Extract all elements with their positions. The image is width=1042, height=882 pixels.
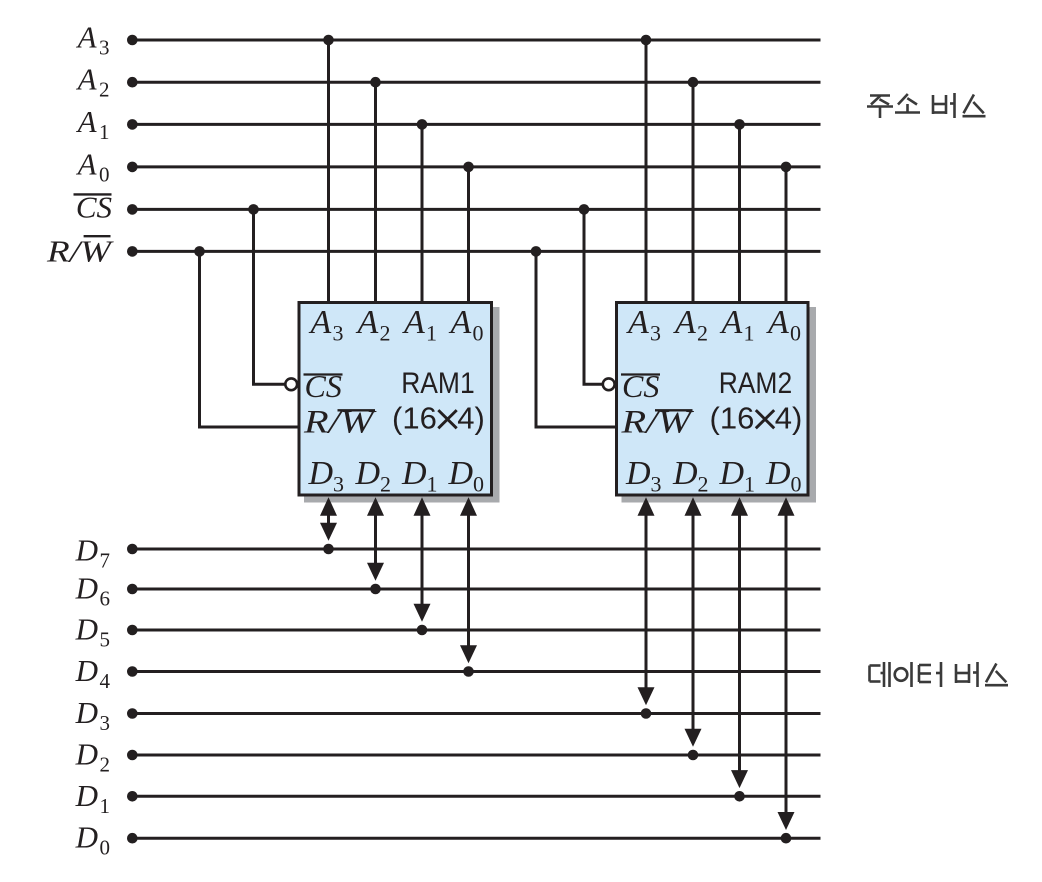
arrowhead up RAM2 D1 to D1 bus [731, 497, 748, 516]
svg-text:A: A [76, 146, 98, 181]
bus line D3 (data bus) [132, 712, 820, 715]
wire A0 bus to RAM1 pin A0 [467, 167, 470, 304]
node D4 bus left terminal [127, 666, 138, 677]
wire RAM2 D0 to D0 bus (bidirectional data line) [785, 505, 788, 826]
node D5 bus left terminal [127, 625, 138, 636]
svg-text:D: D [75, 571, 98, 606]
svg-text:R/W: R/W [46, 234, 115, 269]
arrowhead up RAM1 D1 to D5 bus [414, 497, 431, 516]
svg-text:1: 1 [426, 321, 437, 346]
wire A1 bus to RAM2 pin A1 [738, 124, 741, 304]
bus line D4 (data bus) [132, 670, 820, 673]
svg-text:A: A [449, 304, 472, 341]
svg-text:RAM1: RAM1 [401, 367, 475, 400]
svg-text:A: A [626, 304, 649, 341]
svg-text:5: 5 [100, 628, 111, 652]
junction R/W/RAM2 [531, 246, 542, 257]
junction A0/RAM2 [781, 162, 792, 173]
svg-text:A: A [309, 304, 332, 341]
RAM1 drop shadow [304, 307, 500, 503]
svg-text:2: 2 [380, 321, 391, 346]
node D7 bus left terminal [127, 544, 138, 555]
junction RAM2 D0 to D0 bus [781, 833, 792, 844]
svg-text:D: D [765, 455, 791, 492]
wire A1 bus to RAM1 pin A1 [421, 124, 424, 304]
svg-text:1: 1 [744, 472, 755, 497]
bus line A0 (address bus) [132, 165, 820, 168]
wire RAM1 D2 to D6 bus (bidirectional data line) [374, 505, 377, 577]
junction CS/RAM2 [579, 204, 590, 215]
svg-text:1: 1 [100, 794, 111, 818]
svg-text:2: 2 [698, 472, 709, 497]
svg-text:0: 0 [791, 472, 802, 497]
svg-text:RAM2: RAM2 [719, 367, 793, 400]
svg-text:D: D [75, 533, 98, 568]
bus line D6 (data bus) [132, 588, 820, 591]
svg-text:D: D [672, 455, 698, 492]
arrowhead up RAM1 D3 to D7 bus [320, 497, 337, 516]
svg-text:(16: (16 [710, 401, 755, 436]
bus line CS-bar (chip select) [132, 208, 820, 211]
svg-text:3: 3 [333, 472, 344, 497]
junction RAM1 D3 to D7 bus [323, 544, 334, 555]
arrowhead up RAM2 D3 to D3 bus [638, 497, 655, 516]
junction A0/RAM1 [463, 162, 474, 173]
arrowhead down RAM1 D0 to D4 bus [460, 645, 477, 663]
svg-text:3: 3 [650, 321, 661, 346]
arrowhead down RAM2 D1 to D1 bus [731, 770, 748, 788]
wire RAM2 D3 to D3 bus (bidirectional data line) [645, 505, 648, 702]
junction RAM1 D2 to D6 bus [370, 584, 381, 595]
svg-text:2: 2 [100, 753, 111, 777]
svg-text:4: 4 [100, 669, 111, 693]
node D2 bus left terminal [127, 750, 138, 761]
RAM2 block body (16x4 RAM chip) [617, 303, 809, 496]
svg-text:D: D [355, 455, 381, 492]
svg-text:4): 4) [457, 401, 485, 436]
junction RAM2 D3 to D3 bus [641, 708, 652, 719]
svg-text:(16: (16 [392, 401, 437, 436]
junction A1/RAM1 [417, 119, 428, 130]
arrowhead down RAM2 D0 to D0 bus [778, 812, 795, 830]
wire RAM2 D2 to D2 bus (bidirectional data line) [692, 505, 695, 743]
node D0 bus left terminal [127, 833, 138, 844]
svg-text:2: 2 [697, 321, 708, 346]
svg-text:A: A [356, 304, 379, 341]
wire R/W bus to RAM2 R/W pin [536, 251, 617, 427]
svg-text:D: D [75, 737, 98, 772]
junction A2/RAM2 [688, 77, 699, 88]
svg-text:A: A [76, 62, 98, 97]
svg-text:4): 4) [775, 401, 803, 436]
svg-text:D: D [75, 653, 98, 688]
svg-text:A: A [76, 104, 98, 139]
wire A2 bus to RAM2 pin A2 [692, 82, 695, 304]
svg-text:D: D [625, 455, 651, 492]
wire A3 bus to RAM1 pin A3 [327, 40, 330, 304]
node D1 bus left terminal [127, 791, 138, 802]
wire CS bus to RAM1 CS pin [254, 209, 286, 384]
bus line D1 (data bus) [132, 795, 820, 798]
bus line D7 (data bus) [132, 548, 820, 551]
arrowhead down RAM2 D2 to D2 bus [685, 729, 702, 747]
inversion bubble RAM1 CS [285, 378, 297, 390]
svg-text:A: A [76, 20, 98, 55]
wire CS bus to RAM2 CS pin [584, 209, 603, 384]
svg-text:2: 2 [380, 472, 391, 497]
svg-text:D: D [401, 455, 427, 492]
junction RAM1 D0 to D4 bus [463, 666, 474, 677]
wire A2 bus to RAM1 pin A2 [374, 82, 377, 304]
svg-text:3: 3 [100, 711, 111, 735]
junction RAM2 D1 to D1 bus [734, 791, 745, 802]
arrowhead up RAM1 D0 to D4 bus [460, 497, 477, 516]
junction A2/RAM1 [370, 77, 381, 88]
RAM2 drop shadow [622, 307, 817, 503]
bus line A3 (address bus) [132, 39, 820, 42]
bus line D2 (data bus) [132, 754, 820, 757]
junction A1/RAM2 [734, 119, 745, 130]
bus line D5 (data bus) [132, 629, 820, 632]
svg-text:3: 3 [99, 36, 110, 60]
svg-text:A: A [720, 304, 743, 341]
bus line D0 (data bus) [132, 837, 820, 840]
arrowhead up RAM2 D2 to D2 bus [685, 497, 702, 516]
bus line R/W-bar (read/write) [132, 250, 820, 253]
inversion bubble RAM2 CS [603, 378, 615, 390]
svg-text:2: 2 [99, 78, 110, 102]
node A3 bus left terminal [127, 35, 138, 46]
svg-text:0: 0 [99, 162, 110, 186]
node A0 bus left terminal [127, 162, 138, 173]
junction R/W/RAM1 [194, 246, 205, 257]
RAM1 block body (16x4 RAM chip) [299, 303, 492, 496]
arrowhead down RAM1 D1 to D5 bus [414, 604, 431, 622]
svg-text:A: A [402, 304, 425, 341]
svg-text:0: 0 [473, 321, 484, 346]
svg-text:1: 1 [427, 472, 438, 497]
svg-text:1: 1 [744, 321, 755, 346]
wire A0 bus to RAM2 pin A0 [785, 167, 788, 304]
node A2 bus left terminal [127, 77, 138, 88]
node D6 bus left terminal [127, 584, 138, 595]
svg-text:6: 6 [100, 587, 111, 611]
wire R/W bus to RAM1 R/W pin [200, 251, 300, 427]
arrowhead down RAM2 D3 to D3 bus [638, 687, 655, 705]
node R/W bus left terminal [127, 246, 138, 257]
svg-text:0: 0 [473, 472, 484, 497]
junction CS/RAM1 [248, 204, 259, 215]
arrowhead down RAM1 D3 to D7 bus [320, 523, 337, 541]
node A1 bus left terminal [127, 119, 138, 130]
wire A3 bus to RAM2 pin A3 [645, 40, 648, 304]
arrowhead down RAM1 D2 to D6 bus [367, 563, 384, 581]
annotation: data bus (Korean "deiteo beoseu") [870, 662, 1009, 687]
svg-text:D: D [75, 612, 98, 647]
annotation: address bus (Korean "juso beoseu") [867, 93, 986, 118]
junction RAM1 D1 to D5 bus [417, 625, 428, 636]
wire RAM1 D1 to D5 bus (bidirectional data line) [421, 505, 424, 618]
bus line A1 (address bus) [132, 123, 820, 126]
junction RAM2 D2 to D2 bus [688, 750, 699, 761]
svg-text:A: A [673, 304, 696, 341]
svg-text:D: D [75, 778, 98, 813]
svg-text:D: D [719, 455, 745, 492]
arrowhead up RAM1 D2 to D6 bus [367, 497, 384, 516]
wire RAM2 D1 to D1 bus (bidirectional data line) [738, 505, 741, 784]
svg-text:0: 0 [100, 836, 111, 860]
svg-text:D: D [448, 455, 474, 492]
svg-text:1: 1 [99, 120, 110, 144]
arrowhead up RAM2 D0 to D0 bus [778, 497, 795, 516]
svg-text:3: 3 [651, 472, 662, 497]
svg-text:0: 0 [790, 321, 801, 346]
wire RAM1 D3 to D7 bus (bidirectional data line) [327, 505, 330, 537]
svg-text:A: A [766, 304, 789, 341]
bus line A2 (address bus) [132, 81, 820, 84]
svg-text:3: 3 [333, 321, 344, 346]
node D3 bus left terminal [127, 708, 138, 719]
svg-text:7: 7 [100, 549, 111, 573]
node CS bus left terminal [127, 204, 138, 215]
svg-text:D: D [308, 455, 334, 492]
svg-text:D: D [75, 820, 98, 855]
wire RAM1 D0 to D4 bus (bidirectional data line) [467, 505, 470, 660]
junction A3/RAM1 [323, 35, 334, 46]
svg-text:D: D [75, 695, 98, 730]
junction A3/RAM2 [641, 35, 652, 46]
